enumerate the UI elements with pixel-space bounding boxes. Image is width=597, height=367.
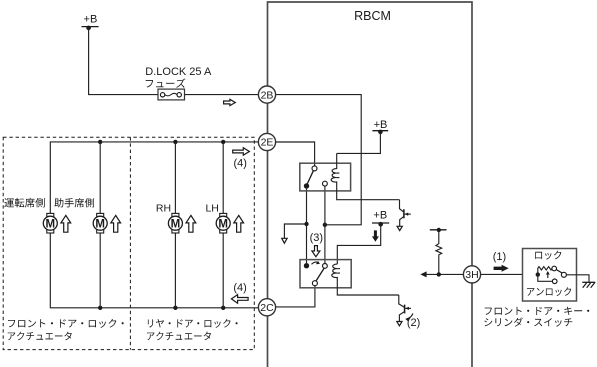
svg-text:(2): (2) — [407, 317, 420, 329]
label rear door lock actuator line1 — [148, 319, 238, 328]
motor M3 RH (door lock actuator) — [168, 213, 182, 233]
motor M2 passenger side (door lock actuator) — [93, 213, 107, 233]
wire actuator bottom rail to 2C — [50, 233, 258, 308]
fuse D.LOCK 25 A — [158, 89, 185, 100]
relay K2 NO contact — [323, 264, 328, 269]
flow arrow (1) solid right — [494, 265, 509, 272]
switch resistor to lock contact — [538, 267, 552, 275]
label fuse (katakana) — [146, 79, 186, 88]
relay K2 coil — [332, 264, 399, 295]
wire +B to K1 coil — [337, 132, 381, 153]
connector pin 2E — [258, 133, 275, 150]
motor M1 driver side (door lock actuator) — [43, 213, 57, 233]
svg-text:RBCM: RBCM — [354, 9, 391, 23]
label (4) near 2C — [233, 282, 246, 294]
front door key cylinder switch box — [523, 249, 577, 302]
label key cylinder switch line2 — [484, 317, 572, 326]
label D.LOCK 25 A fuse — [145, 66, 212, 78]
resistor top terminal bar — [430, 228, 447, 232]
svg-text:2C: 2C — [260, 302, 274, 314]
label (1) — [493, 251, 506, 263]
relay K2 common pivot — [312, 281, 317, 286]
junction NO feed — [323, 223, 327, 227]
relay K1 NC terminal dot — [304, 183, 309, 188]
label rear door lock actuator line2 — [147, 332, 211, 341]
wire 3H to key cylinder switch — [426, 273, 523, 275]
wire +B to K2 coil — [337, 224, 380, 264]
relay K1 NO contact — [323, 181, 328, 186]
label front door lock actuator line1 — [8, 319, 124, 328]
label (3) — [310, 232, 323, 244]
flow arrow (3) hollow down — [312, 246, 320, 257]
svg-text:(3): (3) — [310, 232, 323, 244]
svg-text:M: M — [95, 218, 105, 230]
svg-text:(1): (1) — [493, 251, 506, 263]
flow arrow (4) hollow left near 2C — [231, 295, 248, 304]
switch junction dot — [536, 272, 540, 276]
svg-text:M: M — [218, 218, 228, 230]
label (2) — [407, 317, 420, 329]
flow arrow (4) hollow right near 2E — [233, 148, 250, 156]
svg-text:(4): (4) — [233, 157, 246, 169]
ground (chassis) — [582, 282, 595, 287]
power +B terminal (battery feed, top left) — [82, 13, 99, 30]
wire motor bottoms — [100, 233, 223, 308]
label LH — [205, 202, 218, 214]
motor M4 LH (door lock actuator) — [216, 213, 230, 233]
relay K1 blade (on NC) — [307, 171, 314, 186]
junction NC stub — [304, 222, 308, 226]
connector pin 2C — [258, 299, 275, 316]
flow arrow (2) curved — [405, 313, 413, 321]
wire NC contact link — [306, 189, 308, 263]
label RH — [156, 202, 171, 214]
relay K1 coil — [331, 153, 399, 199]
power +B terminal (relay K2 coil feed) — [372, 210, 389, 227]
relay K2 NC terminal dot — [304, 263, 309, 268]
svg-text:(4): (4) — [233, 282, 246, 294]
label front door key line1 — [485, 307, 590, 315]
svg-text:2E: 2E — [261, 137, 274, 149]
hollow up arrow beside motor M4 LH — [234, 215, 244, 232]
wire 2C to relay K2 common — [276, 286, 315, 307]
wire 2E to relay K1 common — [276, 142, 315, 166]
power +B terminal (relay K1 coil feed) — [372, 119, 388, 134]
svg-text:M: M — [171, 218, 181, 230]
flow arrow solid down (unlock feed) — [372, 230, 379, 241]
relay K1 box — [300, 163, 351, 191]
label passenger side (joshuseki-gawa) — [54, 198, 94, 208]
label driver side (untenseki-gawa) — [4, 198, 45, 208]
connector pin 3H — [463, 266, 480, 283]
flow arrow (hollow, right) after fuse — [224, 99, 236, 105]
wire NC stub to ground continuation — [284, 224, 306, 239]
relay K2 blade motion arrow — [312, 261, 320, 264]
front/rear door lock actuator dashed enclosure — [3, 137, 254, 349]
unlock contact — [552, 279, 557, 284]
connector pin 2B — [258, 86, 275, 103]
wire NO contact link (relay K1 to K2) — [324, 186, 326, 264]
open arrowhead down (continuation) — [282, 238, 287, 243]
svg-text:3H: 3H — [465, 269, 478, 281]
junction dots on top rail — [98, 140, 225, 144]
transistor Q2 (unlock relay driver) — [397, 295, 411, 326]
filled arrowhead left (continuation) — [420, 271, 426, 277]
svg-text:+B: +B — [374, 119, 388, 131]
label unlock (katakana) — [527, 287, 571, 296]
label (4) near 2E — [233, 157, 246, 169]
junction dots on bottom rail — [98, 306, 225, 310]
switch common pivot — [561, 272, 566, 277]
wire +B to fuse — [89, 28, 158, 95]
lock contact — [552, 266, 557, 271]
label RBCM — [354, 9, 391, 23]
svg-text:+B: +B — [373, 210, 387, 222]
switch blade toward lock — [556, 270, 562, 274]
svg-text:M: M — [46, 218, 56, 230]
hollow up arrow beside motor M1 driver side — [61, 215, 71, 232]
svg-text:+B: +B — [84, 13, 98, 25]
unlock branch wire — [538, 275, 553, 282]
wire drops to motors — [100, 142, 223, 214]
wire 2E to actuator top rail — [50, 142, 258, 214]
svg-text:LH: LH — [205, 202, 218, 214]
RBCM module box — [268, 2, 473, 367]
relay K2 blade (on NO) — [316, 268, 324, 281]
svg-text:RH: RH — [156, 202, 171, 214]
hollow up arrow beside motor M3 RH — [186, 215, 196, 232]
relay K2 box — [300, 260, 351, 288]
wire switch to ground — [566, 275, 589, 282]
relay K1 common pivot — [312, 166, 317, 171]
label front door lock actuator line2 — [8, 332, 72, 341]
wire fuse to pin 2B — [185, 94, 259, 96]
wire 2B to relay NO contacts — [276, 95, 362, 225]
switch motion arrow — [546, 271, 550, 278]
svg-text:D.LOCK 25 A: D.LOCK 25 A — [145, 66, 212, 78]
junction resistor branch — [437, 272, 441, 276]
hollow up arrow beside motor M2 passenger side — [111, 215, 121, 232]
resistor R1 (pull-up) — [436, 230, 442, 274]
label lock (katakana) — [535, 251, 561, 260]
svg-text:2B: 2B — [261, 89, 274, 101]
transistor Q1 (lock relay driver) — [397, 200, 411, 231]
